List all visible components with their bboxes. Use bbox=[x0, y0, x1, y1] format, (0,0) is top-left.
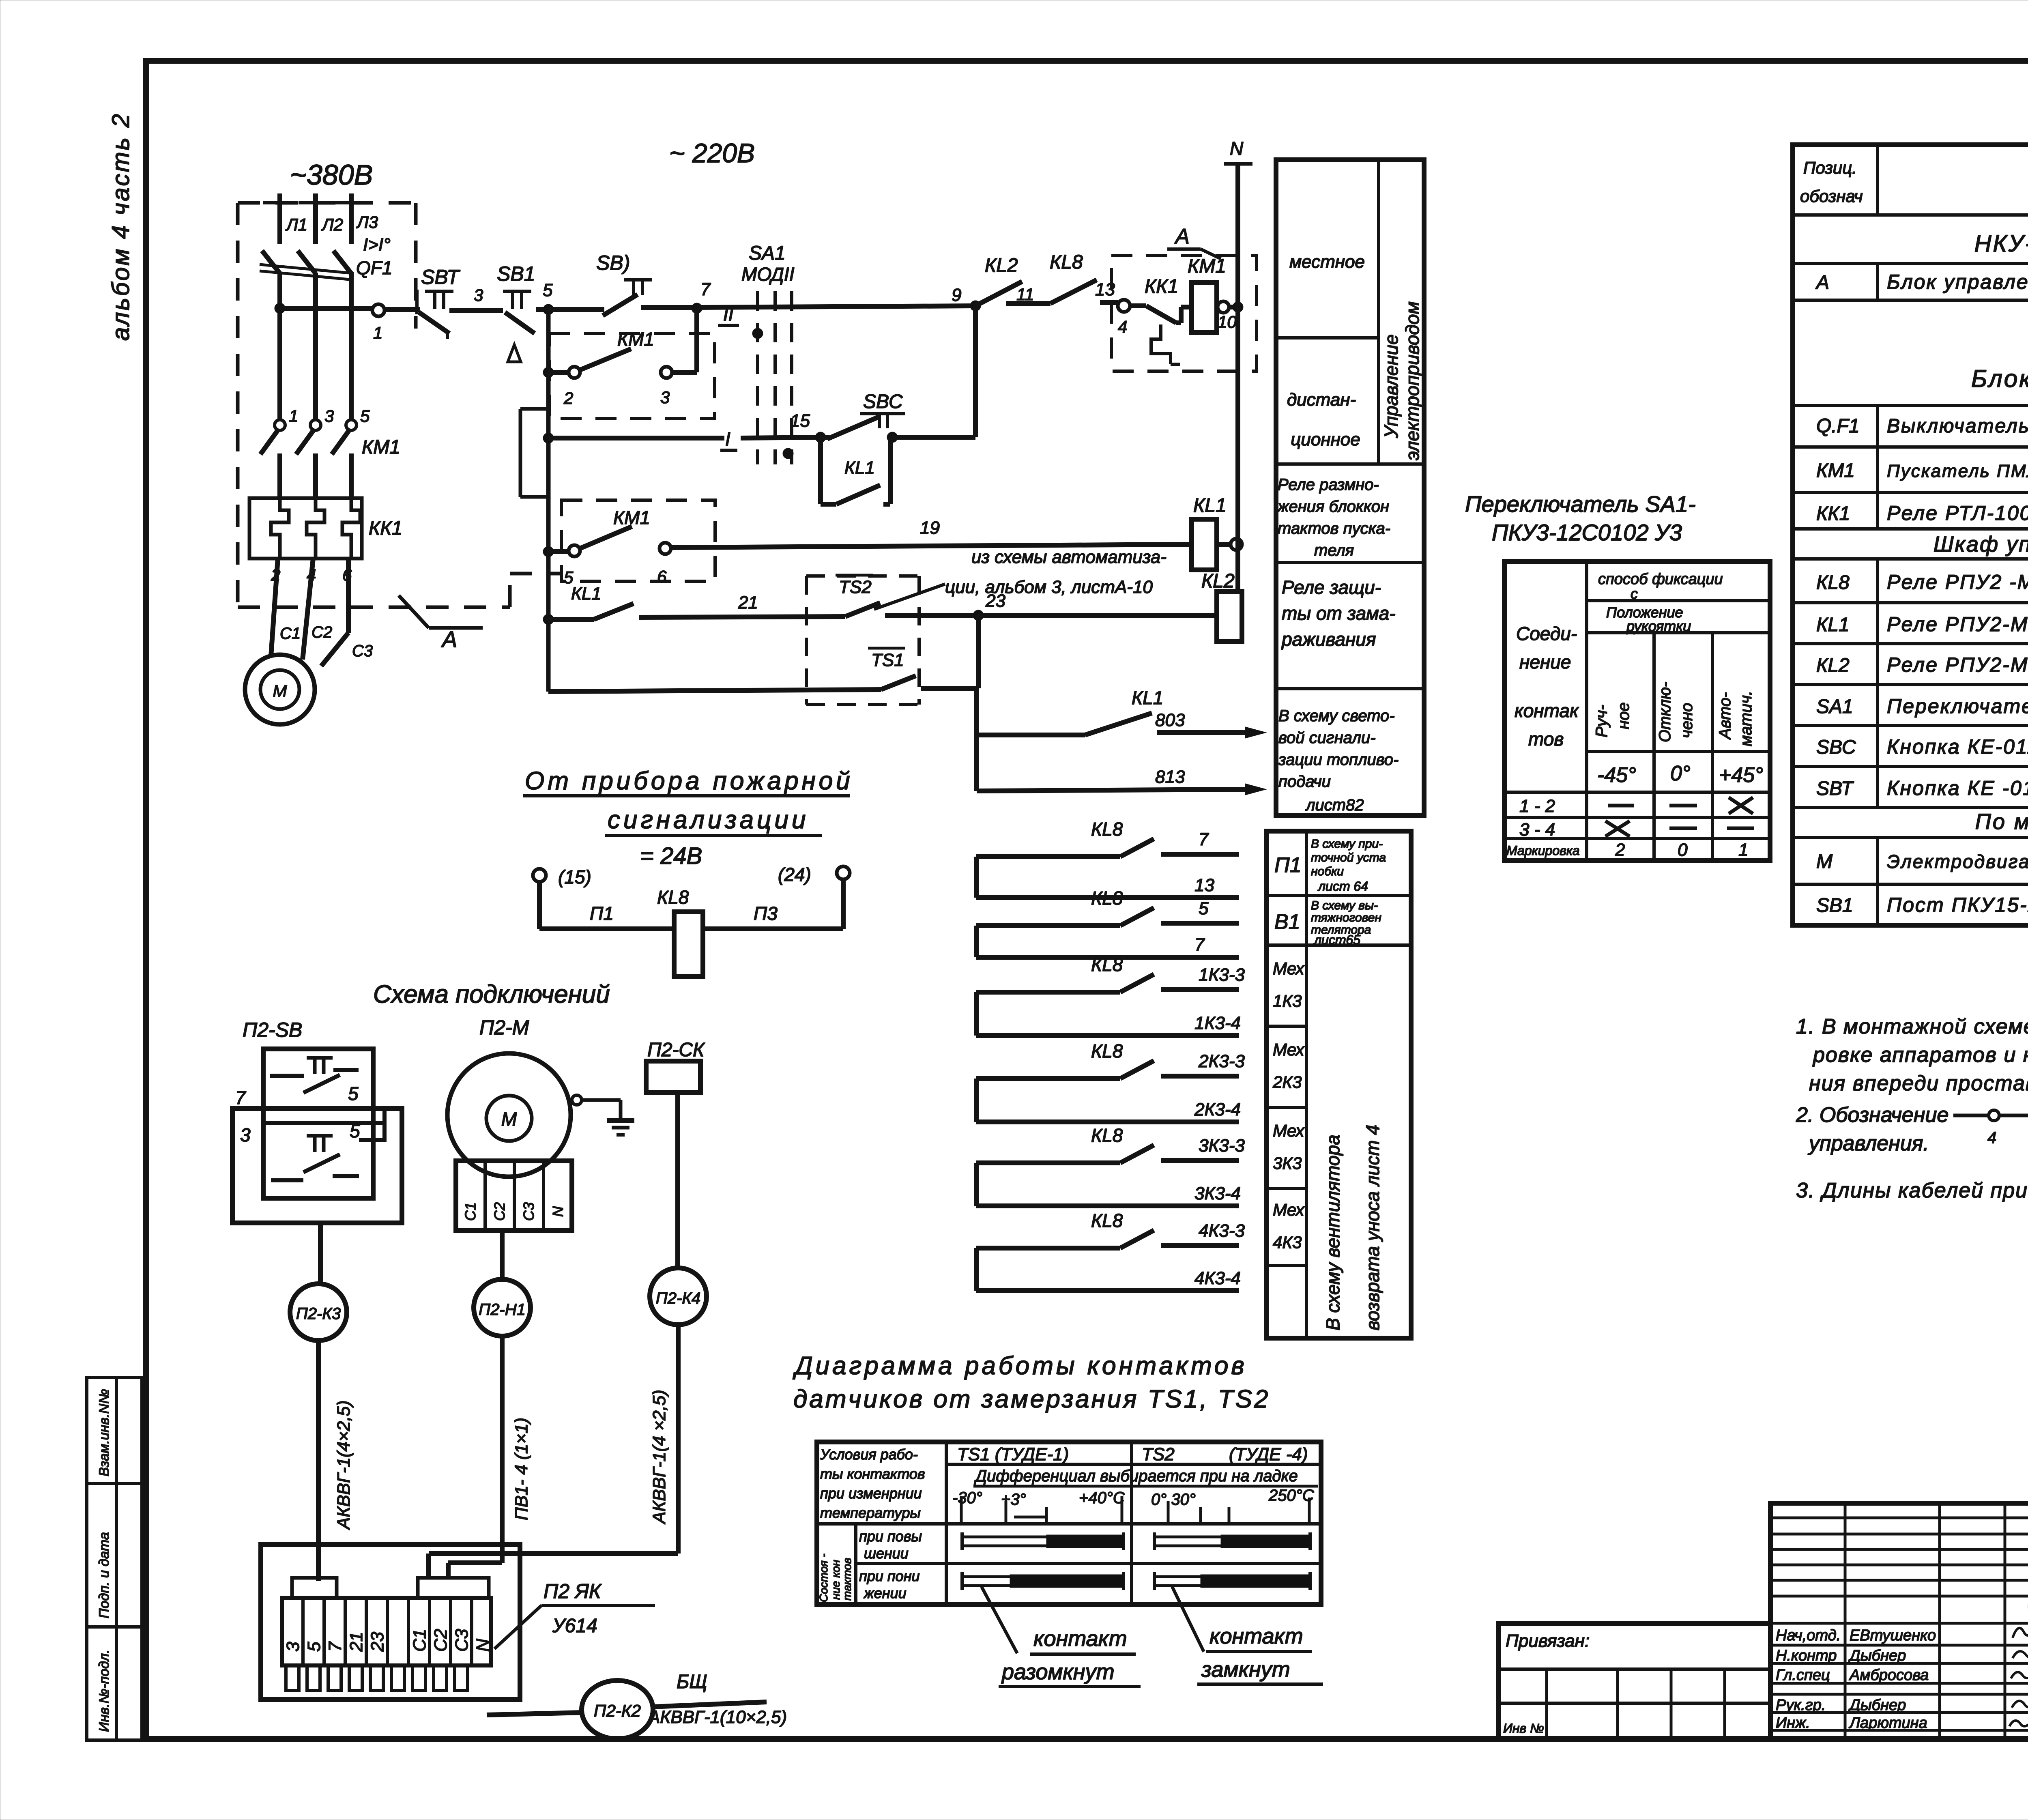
aux contact KM1 5-6 bbox=[548, 507, 671, 587]
svg-text:Мех: Мех bbox=[1273, 1040, 1305, 1059]
switch SA1 dashed poles bbox=[741, 243, 795, 464]
svg-text:Блок управления 65130 -2674 ГУ: Блок управления 65130 -2674 ГУХЛ 4 bbox=[1887, 271, 2028, 293]
svg-text:Инв.№-подл.: Инв.№-подл. bbox=[97, 1650, 112, 1732]
note 3 bbox=[1796, 1179, 2028, 1202]
cell text mestnoe bbox=[1289, 252, 1365, 272]
svg-text:3: 3 bbox=[324, 406, 334, 425]
svg-text:Позиц.: Позиц. bbox=[1803, 158, 1857, 177]
TS2 temp scale bbox=[1151, 1487, 1315, 1523]
svg-text:SВ): SВ) bbox=[596, 251, 630, 274]
svg-text:тактов: тактов bbox=[841, 1558, 853, 1601]
cell text distantsionnoe bbox=[1287, 390, 1360, 449]
dashed box KM1 aux lower bbox=[561, 500, 715, 581]
wire P2-SK down bbox=[675, 1093, 680, 1268]
cable marker P2-K2 oval bbox=[487, 1680, 653, 1739]
svg-text:КL8: КL8 bbox=[1091, 1210, 1123, 1231]
svg-text:-45°: -45° bbox=[1597, 763, 1636, 787]
svg-text:П2-СК: П2-СК bbox=[647, 1039, 705, 1061]
relay contact KL1 bypass bbox=[821, 437, 890, 504]
section Shkaf upravleniya bbox=[1933, 532, 2028, 557]
svg-text:П2 ЯК: П2 ЯК bbox=[544, 1580, 602, 1603]
cable label PV1-4 bbox=[511, 1418, 531, 1520]
svg-text:5: 5 bbox=[350, 1120, 360, 1141]
svg-text:SВТ: SВТ bbox=[1816, 778, 1854, 799]
svg-text:КМ1: КМ1 bbox=[617, 329, 654, 350]
svg-text:вой сигнали-: вой сигнали- bbox=[1278, 729, 1376, 747]
svg-text:тов: тов bbox=[1528, 728, 1564, 750]
svg-text:шении: шении bbox=[864, 1545, 909, 1562]
wire 803 with arrow bbox=[1155, 710, 1266, 738]
node 5 junction bbox=[543, 280, 554, 315]
svg-text:Дифференциал выбирается при на: Дифференциал выбирается при на ладке bbox=[974, 1467, 1298, 1485]
svg-text:QF1: QF1 bbox=[356, 257, 392, 278]
title diagramma raboty kontaktov bbox=[793, 1352, 1270, 1413]
svg-text:с: с bbox=[1631, 585, 1638, 602]
cell P1 bbox=[1274, 853, 1302, 877]
svg-text:КL8: КL8 bbox=[1091, 1125, 1123, 1146]
svg-text:КК1: КК1 bbox=[369, 518, 402, 539]
svg-text:контакт: контакт bbox=[1033, 1627, 1127, 1651]
svg-text:3К3: 3К3 bbox=[1273, 1154, 1302, 1173]
sensor contact TS2 bbox=[836, 575, 880, 617]
svg-text:Кнопка КЕ -011У3, исп.5: Кнопка КЕ -011У3, исп.5 bbox=[1887, 777, 2028, 799]
motor P2-M bbox=[447, 1053, 571, 1177]
pin label 2 bbox=[271, 565, 280, 584]
svg-text:В схему вы-: В схему вы- bbox=[1311, 899, 1378, 912]
svg-text:SВ1: SВ1 bbox=[1816, 895, 1853, 916]
svg-text:М: М bbox=[501, 1109, 517, 1130]
svg-text:II: II bbox=[723, 303, 734, 324]
wire node 11 bbox=[1006, 285, 1051, 304]
svg-text:5: 5 bbox=[304, 1642, 324, 1652]
svg-text:SА1: SА1 bbox=[1816, 696, 1853, 718]
wire I line bbox=[548, 437, 821, 438]
label C2 bbox=[312, 623, 332, 641]
ground wire from P2-M bbox=[572, 1095, 621, 1120]
svg-text:По месту: По месту bbox=[1975, 810, 2028, 834]
svg-text:0: 0 bbox=[1678, 840, 1688, 860]
svg-text:КL8: КL8 bbox=[1050, 251, 1083, 273]
svg-text:6: 6 bbox=[657, 567, 667, 586]
title shema podklyucheniy bbox=[373, 980, 610, 1008]
svg-text:Переключатель SА1-: Переключатель SА1- bbox=[1465, 491, 1696, 517]
svg-text:альбом 4 часть 2: альбом 4 часть 2 bbox=[107, 112, 134, 341]
svg-text:Мех: Мех bbox=[1273, 959, 1305, 978]
svg-text:Пускатель ПМЛ Н0004В,ПКЛ2004,U: Пускатель ПМЛ Н0004В,ПКЛ2004,Uкат~220В bbox=[1887, 461, 2028, 481]
stamp cell text 'Взам.инв.N' bbox=[97, 1389, 112, 1476]
relay coil KL1 bbox=[1192, 495, 1227, 570]
cell Mex 3&#1050;3 bbox=[1273, 1121, 1305, 1173]
leader kontakt zamknut bbox=[1172, 1587, 1323, 1684]
svg-text:1: 1 bbox=[373, 323, 382, 342]
svg-text:Соеди-: Соеди- bbox=[1516, 623, 1577, 644]
svg-text:С3: С3 bbox=[352, 642, 373, 660]
svg-text:жения блоккон: жения блоккон bbox=[1277, 498, 1389, 516]
title perekluchatel SA1 bbox=[1465, 491, 1696, 545]
relay coil KL2 bbox=[1201, 570, 1242, 642]
cell B1 bbox=[1274, 910, 1300, 934]
svg-text:разомкнут: разомкнут bbox=[1001, 1660, 1115, 1684]
terminal circle 24 bbox=[778, 864, 850, 885]
node after SBC bbox=[887, 432, 898, 443]
SA1 row 3-4 bbox=[1519, 820, 1754, 840]
label L2 bbox=[321, 215, 343, 234]
phase line L3 top bbox=[334, 193, 368, 244]
svg-text:местное: местное bbox=[1289, 252, 1365, 272]
phase verticals QF1 to KM1 bbox=[280, 273, 351, 419]
svg-text:П2-SВ: П2-SВ bbox=[243, 1019, 302, 1041]
label A of enclosure with leader bbox=[399, 595, 483, 652]
svg-text:Дыбнер: Дыбнер bbox=[1848, 1697, 1906, 1714]
svg-text:П2-Н1: П2-Н1 bbox=[479, 1301, 526, 1319]
svg-text:Инв №: Инв № bbox=[1503, 1721, 1544, 1736]
svg-text:дистан-: дистан- bbox=[1287, 390, 1356, 410]
terminal circle 4 bbox=[1118, 300, 1130, 336]
svg-text:раживания: раживания bbox=[1281, 629, 1376, 650]
routing table lower grid bbox=[1266, 831, 1411, 1338]
svg-text:П2-М: П2-М bbox=[479, 1016, 529, 1039]
leader kontakt razomknut bbox=[982, 1587, 1141, 1687]
svg-text:АКВВГ-1(4×2,5): АКВВГ-1(4×2,5) bbox=[334, 1400, 354, 1530]
svg-text:при изменрнии: при изменрнии bbox=[820, 1485, 922, 1502]
wire P2-SB down bbox=[318, 1223, 323, 1284]
pin 5 lower P2-SB bbox=[350, 1120, 360, 1141]
rotated text v shemu ventilyatora bbox=[1322, 1125, 1383, 1330]
svg-text:SА1: SА1 bbox=[749, 243, 786, 264]
section NKU shchit bbox=[1974, 230, 2028, 257]
svg-text:Электродвигатель 4А8084,-1,5кВ: Электродвигатель 4А8084,-1,5кВт ~380В bbox=[1887, 851, 2028, 872]
svg-text:Маркировка: Маркировка bbox=[1506, 843, 1580, 858]
vertical bus from node 5 bbox=[546, 309, 551, 692]
svg-text:КL1: КL1 bbox=[571, 584, 602, 604]
wire 803 branch vertical bbox=[974, 688, 979, 791]
routing table upper grid bbox=[1276, 160, 1424, 816]
wire P2-K4 to terminal box bbox=[429, 1325, 678, 1578]
node 9 junction bbox=[952, 285, 981, 311]
svg-text:21: 21 bbox=[346, 1632, 366, 1652]
thermal contact KK1 break bbox=[1130, 276, 1180, 364]
svg-text:ние кон: ние кон bbox=[829, 1560, 842, 1600]
parts row SB1 bbox=[1816, 893, 2028, 916]
junction dot wire I bbox=[543, 433, 554, 443]
svg-text:Авто-: Авто- bbox=[1716, 692, 1734, 740]
relay contact KL1 rung21 bbox=[548, 584, 634, 619]
svg-text:5: 5 bbox=[360, 406, 370, 425]
svg-text:обознач: обознач bbox=[1800, 187, 1863, 206]
SA1 angle +45 bbox=[1719, 763, 1763, 787]
parts row QF1 bbox=[1816, 414, 2028, 437]
signatures scribbles bbox=[2009, 1590, 2028, 1727]
svg-text:Реле защи-: Реле защи- bbox=[1282, 577, 1381, 598]
terminal box P2-M bbox=[456, 1161, 572, 1231]
svg-text:КМ1: КМ1 bbox=[362, 436, 400, 458]
svg-text:П1: П1 bbox=[1274, 853, 1302, 877]
svg-text:1К3-4: 1К3-4 bbox=[1194, 1013, 1241, 1033]
svg-text:Выключатель АЕ2026-10 НУ3-Б; I: Выключатель АЕ2026-10 НУ3-Б; Iр =5А bbox=[1887, 415, 2028, 437]
svg-text:2: 2 bbox=[1615, 840, 1625, 860]
SA1 rotated otklyucheno bbox=[1656, 682, 1696, 742]
svg-text:КL8: КL8 bbox=[657, 887, 689, 908]
svg-text:электроприводом: электроприводом bbox=[1402, 301, 1423, 460]
svg-text:КL1: КL1 bbox=[1816, 614, 1850, 636]
TS2 bar ponizhenie bbox=[1154, 1572, 1310, 1590]
svg-text:1: 1 bbox=[1738, 840, 1748, 860]
button SB1 symbol bbox=[497, 262, 535, 362]
pin label 5 bbox=[360, 406, 370, 425]
cable marker P2-K3 bbox=[290, 1284, 347, 1341]
svg-text:5: 5 bbox=[543, 280, 553, 300]
wire SBC to vertical bbox=[892, 306, 975, 437]
svg-text:Отклю-: Отклю- bbox=[1656, 682, 1674, 742]
svg-text:М: М bbox=[273, 681, 287, 700]
label ~380V supply bbox=[290, 159, 373, 191]
svg-text:0°: 0° bbox=[1670, 762, 1691, 785]
svg-text:7: 7 bbox=[1194, 935, 1205, 955]
label C1 bbox=[280, 625, 301, 642]
TS diagram table grid bbox=[817, 1442, 1321, 1605]
pin label 1 terminal bbox=[373, 323, 382, 342]
label ~220V supply bbox=[669, 138, 755, 168]
SA1 row 1-2 bbox=[1519, 796, 1753, 816]
svg-text:Реле РПУ2-М96 220 У3-Б: Реле РПУ2-М96 220 У3-Б bbox=[1887, 653, 2028, 676]
svg-text:П2-К2: П2-К2 bbox=[594, 1701, 641, 1720]
wire P1 bbox=[539, 882, 674, 929]
TS rotated sostoyanie kontaktov bbox=[817, 1554, 853, 1602]
svg-text:TS1 (ТУДЕ-1): TS1 (ТУДЕ-1) bbox=[957, 1444, 1069, 1464]
svg-text:В1: В1 bbox=[1274, 910, 1300, 934]
svg-text:3К3-3: 3К3-3 bbox=[1199, 1136, 1245, 1156]
svg-text:В схему при-: В схему при- bbox=[1311, 837, 1383, 851]
svg-text:Н.контр: Н.контр bbox=[1776, 1647, 1837, 1664]
svg-text:КL8: КL8 bbox=[1091, 1040, 1123, 1061]
terminal block P2 YaK outer bbox=[261, 1545, 520, 1700]
cable marker P2-N1 bbox=[474, 1279, 531, 1336]
svg-text:Пост ПКУ15-21121 -54У2: Пост ПКУ15-21121 -54У2 bbox=[1887, 894, 2028, 916]
circuit breaker QF1 symbol bbox=[260, 251, 354, 280]
svg-text:тактов пуска-: тактов пуска- bbox=[1278, 520, 1390, 537]
junction dot phase to control bbox=[275, 303, 285, 314]
dashed box around block A unit bbox=[1111, 256, 1257, 371]
svg-text:803: 803 bbox=[1155, 710, 1185, 730]
svg-text:= 24В: = 24В bbox=[640, 843, 702, 869]
svg-text:ПВ1- 4 (1×1): ПВ1- 4 (1×1) bbox=[511, 1418, 531, 1520]
svg-text:Управление: Управление bbox=[1381, 334, 1402, 438]
cell text rele zashchity bbox=[1281, 577, 1396, 650]
pin label 3 bbox=[324, 406, 334, 425]
wire SB1 to node 5 bbox=[536, 307, 548, 312]
svg-text:В схему свето-: В схему свето- bbox=[1278, 707, 1395, 725]
svg-text:А: А bbox=[441, 626, 457, 652]
svg-text:11: 11 bbox=[1016, 285, 1034, 304]
relay contact KL8 output pair 5 bbox=[976, 1125, 1245, 1206]
signature row ruk gr bbox=[1776, 1697, 1906, 1714]
TS differential note bbox=[973, 1467, 1318, 1486]
section Blok upravleniya bbox=[1971, 365, 2028, 392]
svg-text:+45°: +45° bbox=[1719, 763, 1763, 787]
label P2-SB bbox=[243, 1019, 302, 1041]
svg-text:КL1: КL1 bbox=[1193, 495, 1227, 516]
svg-text:С2: С2 bbox=[491, 1202, 508, 1221]
junction dot on N line bbox=[1233, 302, 1243, 312]
dashed box TS sensors bbox=[806, 576, 919, 705]
relay contact KL8 output pair 6 bbox=[976, 1210, 1245, 1291]
pin label 6 bbox=[342, 565, 352, 584]
svg-text:КМ1: КМ1 bbox=[1816, 460, 1855, 481]
svg-text:КК1: КК1 bbox=[1145, 276, 1178, 297]
terminal circle 1 bbox=[372, 304, 385, 316]
label KM1 main bbox=[362, 436, 400, 458]
switch SA1 table grid bbox=[1504, 561, 1770, 861]
svg-text:Схема подключений: Схема подключений bbox=[373, 980, 610, 1008]
svg-text:МОДII: МОДII bbox=[741, 264, 795, 285]
svg-text:температуры: температуры bbox=[820, 1504, 921, 1521]
TS row pri ponizhenii bbox=[859, 1568, 920, 1601]
SA1 header polozhenie rukoyatki bbox=[1606, 604, 1691, 634]
svg-text:3 - 4: 3 - 4 bbox=[1519, 820, 1555, 840]
svg-text:КL8: КL8 bbox=[1091, 887, 1123, 909]
TS1 bar povyshenie bbox=[962, 1532, 1124, 1550]
svg-text:1К3: 1К3 bbox=[1273, 991, 1302, 1010]
section Po mestu bbox=[1975, 810, 2028, 834]
svg-text:3: 3 bbox=[474, 286, 483, 305]
svg-text:чено: чено bbox=[1678, 703, 1696, 738]
svg-text:ционное: ционное bbox=[1291, 430, 1360, 449]
wires KK1 to motor bbox=[271, 559, 348, 666]
svg-text:Ларютина: Ларютина bbox=[1848, 1715, 1927, 1732]
svg-text:Гл.спец: Гл.спец bbox=[1776, 1667, 1830, 1684]
svg-text:Л2: Л2 bbox=[321, 215, 343, 234]
svg-text:БЩ: БЩ bbox=[677, 1671, 707, 1693]
svg-text:КL2: КL2 bbox=[1201, 570, 1235, 592]
note text from automation scheme bbox=[874, 547, 1167, 609]
title block grid bbox=[1770, 1503, 2028, 1739]
button SB make contact bbox=[548, 251, 652, 316]
label P2 YaK bbox=[494, 1580, 655, 1649]
svg-text:4: 4 bbox=[1987, 1129, 1996, 1147]
svg-text:N: N bbox=[473, 1639, 493, 1652]
svg-text:ты от зама-: ты от зама- bbox=[1282, 603, 1396, 624]
svg-text:Нач,отд.: Нач,отд. bbox=[1776, 1627, 1841, 1644]
svg-text:SВ1: SВ1 bbox=[497, 262, 535, 285]
parts header pozits oboznach bbox=[1800, 158, 1863, 206]
svg-text:возврата уноса лист 4: возврата уноса лист 4 bbox=[1362, 1125, 1383, 1330]
SA1 rotated ruchnoe bbox=[1593, 702, 1633, 737]
motor M bbox=[245, 655, 315, 724]
svg-text:АКВВГ-1(10×2,5): АКВВГ-1(10×2,5) bbox=[647, 1707, 787, 1727]
bypass loop on bus bbox=[520, 409, 549, 497]
label II underlined bbox=[718, 303, 739, 325]
svg-text:4К3: 4К3 bbox=[1273, 1233, 1302, 1252]
svg-text:9: 9 bbox=[952, 285, 961, 305]
svg-text:С3: С3 bbox=[452, 1629, 472, 1652]
title ot pribora pozharnoy bbox=[523, 767, 853, 836]
relay contact KL8 output pair 3 bbox=[976, 954, 1245, 1036]
svg-text:7: 7 bbox=[700, 279, 711, 299]
cell text v shemu svetovoy bbox=[1278, 707, 1399, 814]
svg-text:матич.: матич. bbox=[1737, 691, 1755, 746]
svg-text:сигнализации: сигнализации bbox=[608, 806, 809, 834]
svg-text:23: 23 bbox=[367, 1632, 387, 1652]
svg-text:при повы: при повы bbox=[859, 1528, 922, 1545]
svg-text:7: 7 bbox=[325, 1641, 345, 1652]
svg-text:Взам.инв.N№: Взам.инв.N№ bbox=[97, 1389, 112, 1476]
terminal strip U614 with pins bbox=[282, 1578, 493, 1691]
label I>I deg bbox=[363, 235, 391, 255]
thermal relay KK1 heaters bbox=[249, 498, 362, 559]
svg-text:лист82: лист82 bbox=[1305, 796, 1364, 814]
parts row M bbox=[1816, 849, 2028, 872]
svg-text:(24): (24) bbox=[778, 864, 811, 885]
svg-text:контак: контак bbox=[1515, 700, 1579, 721]
cell text v shemu vytyazhnogo bbox=[1311, 899, 1381, 947]
svg-text:С2: С2 bbox=[312, 623, 332, 641]
node 23 junction bbox=[973, 591, 1005, 621]
wire 21 bbox=[639, 593, 845, 617]
label A with leader bbox=[1167, 225, 1221, 259]
relay contact KL8 output pair 1 bbox=[976, 819, 1239, 898]
margin vertical text 'альбом 4 часть 2' bbox=[107, 112, 134, 341]
contactor KM1 main contacts bbox=[260, 420, 357, 498]
svg-text:П2-К3: П2-К3 bbox=[296, 1305, 341, 1323]
wire node5 contact to node 7 bbox=[641, 305, 697, 310]
svg-text:С1: С1 bbox=[280, 625, 301, 642]
svg-text:Реле РПУ2-М96 620У3 Б: Реле РПУ2-М96 620У3 Б bbox=[1887, 613, 2028, 636]
svg-text:КL8: КL8 bbox=[1816, 572, 1850, 593]
svg-text:0° 30°: 0° 30° bbox=[1151, 1491, 1196, 1508]
svg-text:~ 220В: ~ 220В bbox=[669, 138, 755, 168]
signature row inzh bbox=[1776, 1715, 1927, 1732]
svg-text:5: 5 bbox=[1199, 898, 1209, 918]
signature row gl spets bbox=[1776, 1667, 1929, 1684]
pin 3 P2-SB bbox=[240, 1124, 251, 1145]
SA1 angle 0 bbox=[1670, 762, 1691, 785]
svg-text:подачи: подачи bbox=[1278, 773, 1331, 791]
SA1 left header soedinenie kontaktov bbox=[1515, 623, 1579, 750]
svg-text:теля: теля bbox=[1314, 541, 1354, 559]
button SBT symbol bbox=[417, 266, 460, 339]
svg-text:I>I°: I>I° bbox=[363, 235, 391, 255]
svg-text:TS1: TS1 bbox=[871, 650, 904, 670]
SA1 row markirovka bbox=[1506, 840, 1748, 860]
svg-text:Переключатель ПКУ3-12С010243: Переключатель ПКУ3-12С010243 bbox=[1887, 695, 2028, 718]
svg-text:4: 4 bbox=[1118, 317, 1127, 336]
wire SBT to SB1 (node 3) bbox=[449, 286, 503, 310]
parts row SA1 bbox=[1816, 694, 2028, 718]
svg-text:Блок управления: Блок управления bbox=[1971, 365, 2028, 392]
svg-text:От прибора пожарной: От прибора пожарной bbox=[525, 767, 853, 795]
note 1 line 3 bbox=[1809, 1072, 2028, 1095]
svg-text:TS2: TS2 bbox=[1142, 1444, 1175, 1464]
label 15 bbox=[790, 411, 810, 431]
svg-text:ции, альбом 3, листА-10: ции, альбом 3, листА-10 bbox=[945, 577, 1153, 597]
privyazan block bbox=[1498, 1623, 1770, 1739]
label I underlined bbox=[720, 428, 737, 450]
svg-text:3: 3 bbox=[283, 1642, 303, 1652]
node 15 junction bbox=[815, 432, 826, 443]
label P2-SK bbox=[647, 1039, 705, 1061]
svg-text:Шкаф управления 1Ш: Шкаф управления 1Ш bbox=[1933, 532, 2028, 557]
svg-text:21: 21 bbox=[738, 593, 758, 612]
svg-text:ты контактов: ты контактов bbox=[820, 1465, 925, 1482]
svg-text:Мех: Мех bbox=[1273, 1121, 1305, 1140]
svg-text:SВС: SВС bbox=[1816, 737, 1856, 758]
svg-text:ния впереди проставлен номер э: ния впереди проставлен номер электроприв… bbox=[1809, 1072, 2028, 1095]
svg-text:15: 15 bbox=[790, 411, 810, 431]
parts row KL2 bbox=[1816, 653, 2028, 676]
TS1 bar ponizhenie bbox=[962, 1572, 1124, 1590]
svg-text:С1: С1 bbox=[462, 1202, 479, 1221]
label =24V bbox=[640, 843, 702, 869]
